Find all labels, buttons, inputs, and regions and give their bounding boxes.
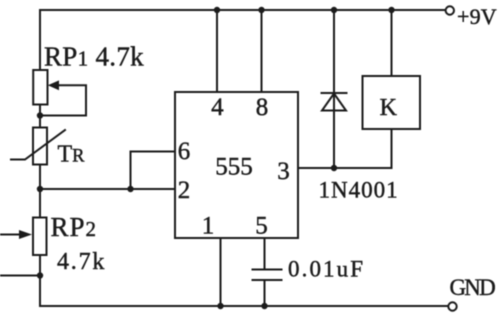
wire pin 5 lead — [264, 238, 266, 270]
wire bottom rail — [40, 305, 448, 307]
node RP2 bottom junction — [37, 272, 43, 278]
wire TR bottom lead — [39, 165, 41, 190]
wire diode branch vertical — [333, 10, 335, 168]
resistor RP1 body — [33, 70, 47, 105]
svg-text:4: 4 — [211, 94, 224, 121]
wire capacitor bottom lead — [264, 280, 266, 306]
svg-text:555: 555 — [215, 154, 253, 181]
capacitor C1 top plate — [253, 269, 282, 271]
wire pin 8 lead — [261, 10, 263, 92]
capacitor C1 bottom plate — [253, 279, 282, 281]
svg-text:4.7k: 4.7k — [57, 249, 106, 275]
thermistor TR diagonal stroke — [11, 130, 65, 160]
wire junction to left edge — [0, 275, 40, 277]
wire RP1 bottom lead — [39, 105, 41, 129]
arrow RP2 wiper head — [19, 230, 32, 239]
wire relay top lead — [391, 10, 393, 76]
svg-text:1N4001: 1N4001 — [319, 178, 399, 203]
wire pin 4 lead — [216, 10, 218, 92]
wire top rail — [40, 9, 445, 11]
wire RP2 wiper lead from left edge — [0, 234, 21, 236]
svg-text:1: 1 — [202, 213, 215, 240]
node pin6-bracket junction — [127, 186, 133, 192]
wire RP1 wiper to bottom (rheostat) — [43, 85, 86, 115]
svg-text:2: 2 — [178, 177, 191, 204]
terminal +9V circle — [446, 6, 454, 14]
relay K box — [363, 76, 421, 129]
wire bracket to pin 6 — [131, 152, 176, 190]
wire pin 3 to relay — [298, 167, 392, 169]
thermistor TR body — [33, 128, 47, 165]
svg-text:K: K — [380, 95, 398, 121]
svg-text:6: 6 — [178, 138, 191, 165]
node capacitor bottom junction — [261, 303, 267, 309]
node pin8 rail junction — [258, 7, 264, 13]
svg-text:5: 5 — [255, 213, 268, 240]
node diode bottom junction — [331, 165, 337, 171]
node pin1 bottom junction — [217, 303, 223, 309]
node TR/RP2/pin2 junction — [37, 186, 43, 192]
svg-text:3: 3 — [277, 158, 290, 185]
svg-text:0.01uF: 0.01uF — [288, 257, 365, 282]
svg-text:RP1 4.7k: RP1 4.7k — [44, 42, 144, 72]
wire left vertical from rail to RP1 — [39, 10, 41, 71]
terminal GND circle — [448, 302, 456, 310]
wire relay bottom lead — [391, 129, 393, 168]
svg-text:GND: GND — [450, 275, 496, 300]
resistor RP2 body — [33, 218, 47, 256]
IC U1 555 timer box — [175, 92, 298, 238]
arrow RP1 wiper head — [48, 80, 59, 90]
diode D1 1N4001 cathode bar — [322, 92, 347, 94]
wire junction to pin 2 — [40, 188, 175, 190]
node RP1/TR junction — [37, 112, 43, 118]
svg-text:RP2: RP2 — [51, 212, 98, 242]
node relay rail junction — [388, 7, 394, 13]
wire RP2 bottom lead — [39, 255, 41, 306]
svg-text:+9V: +9V — [457, 4, 497, 29]
diode D1 1N4001 triangle — [322, 94, 346, 111]
svg-text:8: 8 — [256, 94, 269, 121]
node diode rail junction — [331, 7, 337, 13]
node pin4 rail junction — [214, 7, 220, 13]
wire pin 1 lead — [220, 238, 222, 306]
wire junction down to RP2 — [39, 189, 41, 218]
